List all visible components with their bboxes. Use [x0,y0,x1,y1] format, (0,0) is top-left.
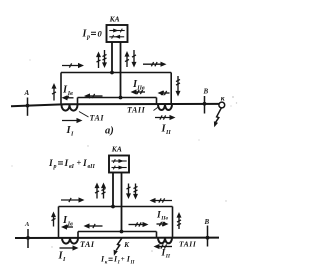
svg-text:ТАI: ТАI [90,114,105,123]
lightning bolt fault arrow (top) [216,108,222,122]
wire right secondary vertical (top) [170,73,172,105]
scan noise specks (decorative) [11,59,237,251]
svg-text:КА: КА [109,15,120,24]
current transformer TA I (top) secondary winding bumps [62,105,78,111]
leader line to TA I label (top) [79,112,89,118]
junction left lead / top rail (bottom) [111,205,115,209]
svg-text:Iв: Iв [67,91,73,97]
wire right secondary vertical (bottom) [172,207,174,238]
arrow secondary current I-II along top rail right (top) [143,63,162,65]
arrow primary current I-I under TA I (top) [62,120,78,122]
arrow along inner rail left (top) [88,95,102,97]
arrow pair in relay right lead: down slashed (bottom) [135,184,137,196]
arrow primary current I-I toward K (bottom) [60,247,75,249]
arrow pair in relay right lead: down (top) [133,50,135,64]
svg-text:IIв: IIв [136,85,145,91]
svg-text:I: I [48,159,53,169]
svg-text:+: + [121,255,125,263]
svg-text:вII: вII [88,164,96,170]
arrow along inner rail left (bottom) [88,225,103,227]
svg-text:к: к [221,93,225,102]
wire left secondary vertical (top) [60,73,62,106]
svg-text:ТАI: ТАI [80,240,95,249]
arrow up current in left vertical (top) [53,87,55,101]
svg-text:+: + [77,157,82,167]
svg-text:IIв: IIв [160,216,168,222]
svg-text:КА: КА [111,144,122,153]
wire inner rail (top) [78,97,157,99]
svg-text:ТАII: ТАII [179,240,197,249]
current transformer TA II (bottom) secondary winding bumps [158,238,172,244]
junction right lead / inner rail (bottom) [120,230,124,234]
arrow secondary current I-I along top rail left (top) [62,65,80,67]
wire left secondary vertical (bottom) [58,207,60,239]
arrow into TA I secondary, short (top) [66,97,74,99]
arrow along inner rail right inner, to the right (bottom) [129,224,145,226]
wire inner rail left step (top) [77,98,79,106]
junction right lead / inner rail (top) [119,96,123,100]
arrow along inner rail right inner (top) [135,91,145,93]
node A (top) [27,98,29,116]
relay coil current arrows opposing (top box interior) [109,30,124,32]
arrow secondary current along top rail right, toward relay (bottom) [154,200,172,202]
arrow pair in relay left lead: down (top) [104,50,106,64]
junction left lead / top rail (top) [110,71,114,75]
wire inner rail (bottom) [78,231,157,233]
relay KA box (bottom) [109,156,129,173]
svg-text:вI: вI [69,164,75,170]
arrow pair in relay left lead: up slashed (bottom) [103,186,105,198]
fault point K terminal circle (top, external fault) [219,102,225,108]
current transformer TA I (bottom) secondary winding bumps [62,238,78,244]
svg-text:р: р [86,35,90,41]
relay coil current arrows adding (bottom box interior) [112,160,127,162]
arrow along inner rail right outer (top) [162,92,170,94]
wire main line A-B (bottom diagram primary) [15,237,219,239]
lightning bolt fault arrow at K (bottom internal fault) [116,238,122,250]
current transformer TA II (top) secondary winding bumps [158,104,172,110]
wire main line A-B (top diagram primary) [11,104,65,106]
leader line to TA II label (top) [154,107,159,111]
arrow up current in right vertical (bottom) [178,216,180,229]
relay KA left lead wire (top) [111,42,113,73]
svg-text:I: I [82,159,87,169]
arrow down current in right vertical (top) [177,76,179,93]
arrow pair in relay right lead: up (top) [126,55,128,67]
wire inner rail right step (bottom) [156,232,158,238]
relay KA box (top) [107,25,128,42]
svg-text:А: А [24,89,30,97]
arrow along inner rail right outer, to the right (bottom) [157,223,165,225]
svg-text:I: I [161,249,166,259]
arrow up current in left vertical (bottom) [53,215,55,226]
svg-text:р: р [53,164,57,170]
svg-text:II: II [165,254,171,260]
wire inner rail left step (bottom) [77,232,79,239]
arrow secondary current along top rail left (bottom) [61,199,80,201]
arrow primary current I-II toward K (bottom) [158,246,172,248]
relay KA right lead wire (bottom) [121,173,123,232]
wire inner rail right step (top) [156,98,158,105]
svg-text:В: В [203,88,209,96]
node A (bottom) [27,229,29,248]
arrow primary current I-II under TA II (top) [155,117,171,119]
node B (bottom) [207,226,209,247]
svg-text:А: А [24,221,30,228]
arrow pair in relay left lead: up (top) [98,55,100,68]
arrow pair in relay right lead: down (bottom) [128,184,130,196]
arrow pair in relay left lead: up plain (bottom) [96,186,98,198]
svg-text:В: В [204,218,210,226]
arrow into TA I secondary, short (bottom) [65,226,73,228]
svg-text:II: II [165,130,171,136]
svg-text:а): а) [105,126,114,137]
wire top rail (bottom) [59,206,173,208]
relay KA right lead wire (top) [120,42,122,98]
node B (top) [204,96,206,114]
svg-text:I: I [64,159,69,169]
relay KA left lead wire (bottom) [112,173,114,207]
svg-text:ТАII: ТАII [127,106,146,115]
wire top rail (top) [61,72,171,74]
